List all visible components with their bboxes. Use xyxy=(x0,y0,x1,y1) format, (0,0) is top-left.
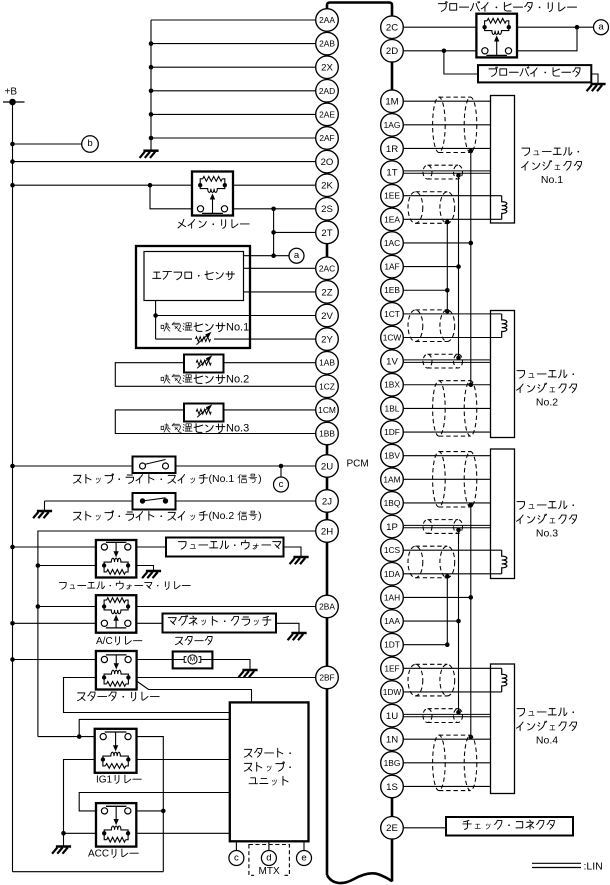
svg-text:1AH: 1AH xyxy=(384,592,400,602)
wire pin 1M to injector xyxy=(404,100,491,102)
link b wire xyxy=(13,143,82,145)
svg-text:1P: 1P xyxy=(386,522,398,533)
wire ACC relay switch to bus xyxy=(136,810,163,812)
node rail junctions 2AB-2AF xyxy=(149,41,154,46)
label starter relay xyxy=(77,693,85,701)
node link-a wire junction xyxy=(271,253,276,258)
svg-text:2BF: 2BF xyxy=(319,672,334,682)
wire junction to link c xyxy=(280,466,282,477)
wire pin 1EF to injector No.4 coil xyxy=(404,667,502,669)
svg-text:): ) xyxy=(258,510,262,522)
LIN bus legend xyxy=(532,862,581,864)
wire pin 1BL to injector xyxy=(404,407,491,409)
wire 2H rail to fuel warmer relay coil xyxy=(38,565,96,567)
wire pin 1AH to bus xyxy=(404,596,471,598)
wire starter motor to ground xyxy=(212,660,250,670)
svg-text:No.4: No.4 xyxy=(536,735,558,747)
injector solenoid coil L3 (fuel injector No.3) xyxy=(502,550,507,574)
wire pin 1P twisted pair to injector xyxy=(404,524,491,526)
wire +B vertical rail xyxy=(12,102,14,872)
svg-text:e: e xyxy=(301,852,306,863)
PCM pin 2O xyxy=(316,150,339,173)
wire pin 1DW from injector No.4 coil xyxy=(404,691,502,693)
wire pin 1AC to bus xyxy=(404,242,471,244)
svg-text:1CM: 1CM xyxy=(318,405,336,415)
node link-c junction xyxy=(279,464,284,469)
wire branch to main relay switch xyxy=(150,185,192,209)
PCM pin 1BV xyxy=(381,444,404,467)
wire rail to pin 2AF xyxy=(151,137,315,139)
PCM pin 1T xyxy=(381,161,404,184)
wire rail to pin 2AE xyxy=(151,113,315,115)
twisted pair symbol (1T) xyxy=(423,165,463,179)
ground (stop light switch No.2) xyxy=(37,510,52,513)
PCM module outline (top bracket) xyxy=(327,3,392,16)
svg-text:2S: 2S xyxy=(321,204,333,215)
wire starter relay switch to starter motor xyxy=(137,659,173,661)
PCM pin 2AB xyxy=(316,32,339,55)
svg-text:1AC: 1AC xyxy=(384,238,400,248)
link b xyxy=(82,136,99,153)
airflow sensor (エアフロ・センサ) inner box xyxy=(144,252,244,301)
thermistor R1 (intake air temp sensor No.1) xyxy=(196,337,211,342)
svg-text:2K: 2K xyxy=(321,181,333,192)
wire IG1 junction to start-stop unit xyxy=(79,719,230,736)
svg-text:1V: 1V xyxy=(386,357,398,368)
svg-text:1EF: 1EF xyxy=(384,663,399,673)
A/C relay xyxy=(96,595,136,633)
fuel injector No.1 connector box xyxy=(491,96,515,224)
PCM pin 2E xyxy=(381,817,404,840)
wire junction to blow-by heater xyxy=(444,51,478,74)
wire A/C relay coil to pin 2BA xyxy=(136,606,315,608)
node bus junctions (1T,1AF,1V) xyxy=(456,173,461,178)
svg-text:): ) xyxy=(258,473,262,485)
wire pin 1R to injector xyxy=(404,147,491,149)
node bus junctions (1BQ,1AH,1N) xyxy=(469,503,474,508)
wire starter relay coil to pin 2BF xyxy=(137,677,316,679)
twisted pair symbol (1U) xyxy=(423,709,463,723)
svg-text:2C: 2C xyxy=(386,23,398,34)
svg-text:No.1: No.1 xyxy=(541,174,563,186)
wire pin 1T twisted pair to injector xyxy=(404,170,491,172)
PCM pin 1M xyxy=(381,90,404,113)
wire sensor No.3 return loop xyxy=(115,410,315,434)
twisted pair symbol (1V) xyxy=(423,354,463,368)
node +B rail junctions xyxy=(10,142,15,147)
svg-text::LIN: :LIN xyxy=(584,861,603,873)
PCM pin 1P xyxy=(381,515,404,538)
svg-text:1AF: 1AF xyxy=(384,262,399,272)
wire unit to link c stub xyxy=(235,841,237,850)
link a (left) xyxy=(289,248,304,263)
wire IG1 relay coil to ground rail xyxy=(64,760,95,847)
PCM pin 2J xyxy=(316,490,339,513)
svg-text:1EA: 1EA xyxy=(384,214,400,224)
PCM pin 1AG xyxy=(381,114,404,137)
label fuel injector No.1 xyxy=(522,148,530,156)
node bus junctions (1EA,1EB,1CT) xyxy=(445,220,450,225)
link c (upper) xyxy=(274,477,289,492)
wire relay coil to link a xyxy=(517,26,594,28)
node intake air temp sensor junction xyxy=(153,313,158,318)
wire sensor No.3 to pin 1CM xyxy=(224,409,316,411)
svg-text:1CS: 1CS xyxy=(384,545,401,555)
svg-text:2T: 2T xyxy=(321,228,332,239)
wire pin 1N to injector xyxy=(404,738,491,740)
main relay (メイン・リレー) xyxy=(192,172,233,216)
fuel injector No.2 connector box xyxy=(491,311,515,438)
intake air temp sensor No.3 box xyxy=(184,404,224,422)
wire ACC relay coil to ground rail xyxy=(64,832,97,834)
wire vertical rail to pins 2AA-2AF xyxy=(150,20,152,150)
svg-text:1EB: 1EB xyxy=(384,285,400,295)
PCM pin 1S xyxy=(381,775,404,798)
node 2S wire junction xyxy=(271,207,276,212)
svg-text:2Z: 2Z xyxy=(321,287,332,298)
PCM pin 2Y xyxy=(316,328,339,351)
svg-text:No.2: No.2 xyxy=(536,397,558,409)
node bus junctions (1DA,1DT) xyxy=(445,574,450,579)
PCM module outline (right column segments) xyxy=(391,62,394,90)
PCM pin 2AA xyxy=(316,9,339,32)
PCM pin 2C xyxy=(381,16,404,39)
ground (blow-by heater) xyxy=(590,83,605,86)
svg-text:2E: 2E xyxy=(386,823,398,834)
fuel injector No.4 connector box xyxy=(491,664,515,794)
wire 2H rail to A/C relay coil xyxy=(38,606,96,608)
svg-text:1AM: 1AM xyxy=(383,474,400,484)
svg-text:1EE: 1EE xyxy=(384,191,400,201)
PCM pin 1DW xyxy=(381,681,404,704)
PCM pin 1CS xyxy=(381,539,404,562)
fuel warmer (フューエル・ウォーマ) box xyxy=(166,538,284,557)
wire +B to main relay coil and pin 2K xyxy=(13,184,193,186)
wire ACC relay switch to start-stop unit xyxy=(79,793,230,811)
label starter xyxy=(175,637,182,644)
node blow-by output junction xyxy=(575,25,580,30)
PCM pin 1EF xyxy=(381,657,404,680)
label blow-by heater relay xyxy=(439,2,448,12)
wire +B to A/C relay switch xyxy=(13,622,96,624)
label fuel injector No.4 xyxy=(517,709,525,717)
label fuel injector No.2 xyxy=(517,371,525,379)
wire pin 1DA from injector No.3 coil xyxy=(404,573,502,575)
ACC relay xyxy=(96,803,136,847)
label airflow sensor xyxy=(153,272,161,278)
wire junction down to 2T xyxy=(273,209,275,256)
PCM pin 1BB xyxy=(316,422,339,445)
PCM pin 2AD xyxy=(316,80,339,103)
injector solenoid coil L4 (fuel injector No.4) xyxy=(502,668,507,692)
svg-text:1AA: 1AA xyxy=(384,616,400,626)
label fuel warmer xyxy=(178,542,186,550)
wire rail to pin 2X xyxy=(151,66,315,68)
wire IG1 relay coil to start-stop unit xyxy=(137,759,230,761)
svg-text:1BX: 1BX xyxy=(384,380,400,390)
label intake air temp sensor No.2 xyxy=(161,375,170,384)
wire thermistor No.1 row xyxy=(156,338,192,340)
wire switch No.2 to pin 2J xyxy=(176,500,316,502)
svg-text:2BA: 2BA xyxy=(319,601,335,611)
shield symbol (injector No.1 coil pair) xyxy=(408,192,455,224)
stop light switch No.1 (S1) xyxy=(133,457,176,474)
blow-by heater relay (ブローバイ・ヒータ・リレー) xyxy=(476,14,517,58)
fuel injector No.3 connector box xyxy=(491,449,515,579)
PCM pin 1CZ xyxy=(316,375,339,398)
wire pin 1BG to injector xyxy=(404,762,491,764)
ground (fuel warmer relay coil) xyxy=(146,570,161,573)
wire pin 1EA from injector No.1 coil xyxy=(404,218,502,220)
PCM pin 1EA xyxy=(381,208,404,231)
wire to pin 2V xyxy=(156,315,316,317)
label magnet clutch xyxy=(168,618,176,625)
check connector (チェック・コネクタ) box xyxy=(446,817,573,836)
svg-text:c: c xyxy=(279,479,284,490)
svg-text:1CZ: 1CZ xyxy=(319,381,335,391)
wire IG1 relay switch to ACC bus xyxy=(137,737,164,872)
thermistor R2 (intake air temp sensor No.2) xyxy=(196,360,211,365)
PCM pin 1V xyxy=(381,350,404,373)
svg-text:1BL: 1BL xyxy=(385,403,400,413)
wire pin 1AG to injector xyxy=(404,124,491,126)
wire pin 1AF to bus xyxy=(404,266,459,268)
PCM pin 2U xyxy=(316,455,339,478)
PCM pin 2H xyxy=(316,520,339,543)
wire pin 2C to blow-by heater relay coil xyxy=(404,26,477,28)
svg-text:2X: 2X xyxy=(321,63,333,74)
svg-text:a: a xyxy=(294,250,300,261)
intake air temp sensor No.2 box xyxy=(184,355,224,373)
svg-text:2AE: 2AE xyxy=(319,109,335,119)
wire bus 1P-1AA-1U xyxy=(458,528,460,715)
wire pin 2E to check connector xyxy=(404,827,446,829)
svg-text:M: M xyxy=(190,656,196,663)
PCM pin 1AF xyxy=(381,255,404,278)
airflow sensor assembly box xyxy=(136,246,250,348)
link e xyxy=(297,851,312,866)
PCM pin 2AE xyxy=(316,103,339,126)
PCM pin 1BX xyxy=(381,373,404,396)
svg-text:1DA: 1DA xyxy=(384,569,401,579)
label fuel injector No.3 xyxy=(517,502,525,510)
PCM pin 1AB xyxy=(316,351,339,374)
svg-text:d: d xyxy=(266,852,271,863)
PCM pin 1U xyxy=(381,704,404,727)
svg-text:1U: 1U xyxy=(386,711,398,722)
PCM pin 1EE xyxy=(381,184,404,207)
svg-text:1AG: 1AG xyxy=(384,120,401,130)
fuel warmer relay (フューエル・ウォーマ・リレー) xyxy=(96,540,136,578)
wire starter relay coil to start-stop unit xyxy=(64,678,230,713)
PCM pin 1AM xyxy=(381,468,404,491)
PCM pin 2X xyxy=(316,56,339,79)
PCM pin 1EB xyxy=(381,279,404,302)
svg-text:A/C: A/C xyxy=(96,636,113,647)
IG1 relay xyxy=(95,729,137,773)
svg-text:c: c xyxy=(234,852,239,863)
ground (fuel warmer) xyxy=(293,556,308,559)
wire blow-by heater to ground xyxy=(591,74,598,84)
wire pin 1CW from injector No.2 coil xyxy=(404,337,502,339)
ground (starter motor) xyxy=(242,669,257,672)
injector solenoid coil L2 (fuel injector No.2) xyxy=(502,314,507,338)
PCM pin 1BL xyxy=(381,397,404,420)
starter relay (スタータ・リレー) xyxy=(96,651,137,690)
label stop light switch No.2 signal xyxy=(73,512,81,520)
PCM module outline (wavy bottom edge) xyxy=(327,873,392,883)
link d xyxy=(261,851,276,866)
shield symbol (injector No.4 coil pair) xyxy=(408,664,455,696)
PCM pin 1CT xyxy=(381,303,404,326)
node bus junctions (1R,1AC,1BX) xyxy=(469,149,474,154)
node 2T wire junction xyxy=(271,230,276,235)
wire A/C relay switch to magnet clutch xyxy=(136,622,162,624)
PCM pin 2T xyxy=(316,221,339,244)
label fuel warmer relay xyxy=(59,582,66,589)
svg-text:1DT: 1DT xyxy=(384,640,400,650)
node ACC switch bus junction xyxy=(161,809,166,814)
PCM module outline (left column segments) xyxy=(326,244,329,257)
PCM pin 1CW xyxy=(381,326,404,349)
svg-text:No.3: No.3 xyxy=(536,528,558,540)
wire ground to stop light switch No.2 xyxy=(45,500,133,502)
svg-text:(No.1: (No.1 xyxy=(209,473,235,485)
svg-text:b: b xyxy=(87,138,92,149)
svg-text:2AC: 2AC xyxy=(319,263,335,273)
MTX dashed box xyxy=(249,845,290,876)
PCM pin 2AC xyxy=(316,257,339,280)
PCM pin 1AC xyxy=(381,232,404,255)
twisted pair symbol (1P) xyxy=(423,520,463,534)
shield symbol (1N/1BG/1S harness) xyxy=(433,735,477,790)
wire unit to link d stub xyxy=(268,841,270,850)
PCM pin 1AA xyxy=(381,610,404,633)
wire to pin 2T xyxy=(274,231,316,233)
PCM pin 2BF xyxy=(316,666,339,689)
svg-text:1DF: 1DF xyxy=(384,427,400,437)
PCM pin 2BA xyxy=(316,595,339,618)
wire fuel warmer relay coil to ground xyxy=(136,566,153,571)
svg-text:1BG: 1BG xyxy=(384,758,401,768)
wire fuel warmer to ground xyxy=(284,547,302,557)
svg-text:No.2: No.2 xyxy=(226,374,249,386)
svg-text:2AB: 2AB xyxy=(319,39,335,49)
label intake air temp sensor No.3 xyxy=(161,424,170,433)
wire pin 1DT to bus xyxy=(404,644,448,646)
wire pin 1DF to injector xyxy=(404,431,491,433)
PCM pin 1BQ xyxy=(381,492,404,515)
wire +B rail to pin 2O xyxy=(13,161,316,163)
wire rail to pin 2AD xyxy=(151,90,315,92)
wire switch No.1 to pin 2U xyxy=(176,465,316,467)
wire pin 1BQ to injector xyxy=(404,502,491,504)
svg-text:1R: 1R xyxy=(386,144,398,155)
svg-text:1BV: 1BV xyxy=(384,451,400,461)
label start-stop unit xyxy=(244,749,252,757)
ground (2AA-2AF rail) xyxy=(143,149,158,152)
svg-text:1M: 1M xyxy=(385,97,398,108)
svg-text:1N: 1N xyxy=(386,735,398,746)
wire +B to stop light switch No.1 xyxy=(13,465,133,467)
svg-text:PCM: PCM xyxy=(347,458,369,469)
node IG1 switch feed junction xyxy=(77,734,82,739)
svg-text:No.1: No.1 xyxy=(226,322,249,334)
svg-text:(No.2: (No.2 xyxy=(209,510,235,522)
label check connector xyxy=(463,820,471,829)
PCM pin 1R xyxy=(381,137,404,160)
svg-text:1BQ: 1BQ xyxy=(384,498,401,508)
magnet clutch (マグネット・クラッチ) box xyxy=(163,614,277,633)
wire pin 1AM to injector xyxy=(404,478,491,480)
svg-text:2O: 2O xyxy=(321,157,334,168)
wire +B to fuel warmer relay switch xyxy=(13,546,96,548)
PCM pin 1AH xyxy=(381,586,404,609)
svg-text:MTX: MTX xyxy=(259,866,280,877)
PCM pin 1BG xyxy=(381,752,404,775)
PCM pin 2K xyxy=(316,174,339,197)
svg-text:2J: 2J xyxy=(322,496,332,507)
svg-text:2U: 2U xyxy=(321,461,333,472)
svg-text:2D: 2D xyxy=(386,46,398,57)
wire pin 2H to relay coil rail xyxy=(38,531,315,737)
svg-text:2AF: 2AF xyxy=(319,133,334,143)
node 2H rail junctions xyxy=(36,563,41,568)
PCM pin 1DA xyxy=(381,563,404,586)
wire magnet clutch to ground xyxy=(276,623,299,632)
link c (lower) xyxy=(229,851,244,866)
shield symbol (1BX/1BL/1DF harness) xyxy=(433,381,477,436)
wire pin 1CS to injector No.3 coil xyxy=(404,549,502,551)
wire 2H rail to IG1 relay switch xyxy=(38,736,95,738)
wire relay switch output xyxy=(517,27,577,51)
svg-text:2Y: 2Y xyxy=(321,335,333,346)
PCM pin 1DF xyxy=(381,421,404,444)
PCM pin 2AF xyxy=(316,127,339,150)
wire airflow sensor to pin 2Z xyxy=(244,291,316,293)
wire starter relay diagonal to start-stop unit xyxy=(137,681,252,702)
shield symbol (1M/1AG/1R harness) xyxy=(433,97,477,152)
wire main relay switch to pin 2S xyxy=(233,208,315,210)
svg-text:IG1: IG1 xyxy=(96,774,113,785)
wire airflow sensor to link a xyxy=(244,255,290,257)
PCM pin 1CM xyxy=(316,399,339,422)
PCM pin 1DT xyxy=(381,633,404,656)
PCM pin 2V xyxy=(316,304,339,327)
link a (right) xyxy=(594,20,609,35)
svg-text:1AB: 1AB xyxy=(319,358,335,368)
svg-text:1DW: 1DW xyxy=(383,687,402,697)
injector solenoid coil L1 (fuel injector No.1) xyxy=(502,196,507,220)
start-stop unit (スタート・ストップ・ユニット) box xyxy=(230,702,309,841)
svg-text:2H: 2H xyxy=(321,526,333,537)
wire pin 1EB to bus xyxy=(404,289,448,291)
svg-text:1CW: 1CW xyxy=(383,332,402,342)
wire sensor No.2 to pin 1AB xyxy=(224,362,316,364)
shield symbol (injector No.3 coil pair) xyxy=(408,546,455,578)
wire airflow sensor to pin 2AC xyxy=(244,267,316,269)
wire unit to link e stub xyxy=(303,841,305,850)
svg-text:2V: 2V xyxy=(321,311,333,322)
svg-text:1BB: 1BB xyxy=(319,428,335,438)
node ACC coil ground junction xyxy=(61,831,66,836)
ground (magnet clutch) xyxy=(291,632,306,635)
svg-text:2AD: 2AD xyxy=(319,86,335,96)
wire bus 1DA-1DT xyxy=(446,574,448,645)
PCM pin 2D xyxy=(381,40,404,63)
svg-text:a: a xyxy=(598,22,604,33)
svg-text:1T: 1T xyxy=(386,167,397,178)
